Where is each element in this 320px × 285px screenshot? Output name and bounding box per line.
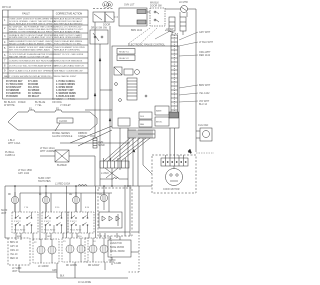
svg-text:REPLACE BOARD IF BAD: REPLACE BOARD IF BAD — [54, 31, 81, 34]
svg-text:REPLACE IF OVER SPEC: REPLACE IF OVER SPEC — [54, 49, 81, 52]
svg-text:SEE FAULT CODES BELOW: SEE FAULT CODES BELOW — [54, 70, 83, 73]
svg-text:L1 BLK: L1 BLK — [101, 172, 109, 175]
svg-text:F4 SHORTED: F4 SHORTED — [6, 92, 21, 95]
svg-text:3. OPEN DOOR: 3. OPEN DOOR — [56, 87, 73, 89]
svg-text:ORG 10: ORG 10 — [10, 250, 19, 252]
svg-text:BROIL 3600W: BROIL 3600W — [110, 251, 126, 253]
svg-text:RF 1200W: RF 1200W — [66, 265, 78, 267]
svg-text:LT BLU WHT: LT BLU WHT — [199, 41, 214, 44]
svg-text:FD RELAY: FD RELAY — [28, 95, 40, 98]
svg-text:LF SURF: LF SURF — [12, 268, 22, 270]
svg-text:RR 1200W: RR 1200W — [88, 265, 100, 267]
svg-text:F2 OVEN HOT: F2 OVEN HOT — [6, 87, 22, 89]
svg-text:T TAN: T TAN — [68, 98, 75, 101]
svg-text:LR: LR — [99, 194, 102, 196]
svg-text:DLB: DLB — [140, 116, 145, 118]
svg-text:CONV MOTOR: CONV MOTOR — [163, 188, 180, 191]
svg-text:GLASS CONSOLE: GLASS CONSOLE — [52, 135, 73, 138]
svg-text:DR LK SW: DR LK SW — [91, 28, 103, 30]
svg-text:W WHITE: W WHITE — [4, 104, 15, 107]
svg-text:BUZZER: BUZZER — [57, 164, 67, 167]
svg-text:CLOCK: CLOCK — [59, 120, 68, 123]
svg-text:FC CANCEL: FC CANCEL — [28, 92, 42, 95]
svg-text:CONVECTION FAN DOES NOT RUN IN: CONVECTION FAN DOES NOT RUN IN BAKE — [9, 60, 56, 63]
svg-text:LK MTR: LK MTR — [179, 1, 188, 4]
svg-text:BAKE: BAKE — [156, 110, 162, 113]
svg-text:ORG: ORG — [77, 236, 82, 238]
svg-text:WHT 14GA: WHT 14GA — [8, 142, 21, 145]
svg-text:FOR CONTINUITY TO ERC: FOR CONTINUITY TO ERC — [54, 43, 82, 45]
svg-text:GRY 1442: GRY 1442 — [18, 172, 30, 175]
svg-text:RELAY K2: RELAY K2 — [119, 57, 130, 60]
svg-text:L1 RED 10GA: L1 RED 10GA — [55, 183, 71, 186]
svg-text:UNIT: UNIT — [12, 271, 18, 273]
svg-text:A GRD: A GRD — [114, 262, 121, 265]
svg-text:FAULT: FAULT — [22, 13, 30, 16]
svg-text:YEL 10: YEL 10 — [10, 254, 18, 256]
svg-text:UNIT: UNIT — [1, 213, 7, 215]
svg-text:BULB. REPLACE IF EITHER ONE IS: BULB. REPLACE IF EITHER ONE IS OPEN — [9, 23, 53, 26]
svg-text:GRY 10: GRY 10 — [10, 246, 19, 248]
svg-text:LF 1200W: LF 1200W — [38, 266, 49, 268]
svg-text:GRY WHT: GRY WHT — [199, 31, 211, 34]
svg-text:YEL 1442: YEL 1442 — [199, 92, 210, 95]
svg-text:GRD: GRD — [52, 270, 57, 272]
svg-text:R RED: R RED — [18, 101, 26, 104]
svg-text:RELAY CONTACTS AND ELEMENT OHM: RELAY CONTACTS AND ELEMENT OHMS — [9, 42, 52, 45]
svg-text:SELF CLEAN CYCLE DOES NOT OPER: SELF CLEAN CYCLE DOES NOT OPERATE — [9, 70, 54, 73]
svg-text:BLK: BLK — [60, 276, 65, 278]
svg-text:DOOR LOCK WILL NOT RELEASE AFT: DOOR LOCK WILL NOT RELEASE AFTER USE — [9, 65, 57, 68]
svg-text:SET. TEST ELEMENT AND WIRE LEA: SET. TEST ELEMENT AND WIRE LEADS — [9, 49, 50, 52]
svg-text:CABLE: CABLE — [78, 135, 86, 138]
svg-text:1. PUSH CANCEL: 1. PUSH CANCEL — [56, 80, 76, 83]
svg-text:F7 LOCK: F7 LOCK — [28, 81, 38, 83]
svg-text:CHECK MOTOR WINDINGS: CHECK MOTOR WINDINGS — [54, 61, 83, 63]
svg-text:FAILURE. RESET CLOCK TIME OF D: FAILURE. RESET CLOCK TIME OF DAY — [9, 55, 50, 58]
svg-text:ELECTRONIC RANGE CONTROL: ELECTRONIC RANGE CONTROL — [128, 44, 166, 47]
svg-text:Y YEL: Y YEL — [35, 104, 42, 107]
svg-text:BRN 10: BRN 10 — [10, 242, 19, 244]
svg-text:RED 10: RED 10 — [10, 258, 19, 260]
svg-text:REPLACE OPEN ELEMENT: REPLACE OPEN ELEMENT — [54, 36, 83, 39]
svg-text:10 GA WIRE: 10 GA WIRE — [78, 281, 91, 284]
svg-text:BRN 1442: BRN 1442 — [131, 29, 143, 32]
svg-text:V VIOLET: V VIOLET — [60, 104, 71, 107]
svg-text:BAKE 2605W: BAKE 2605W — [110, 246, 125, 249]
svg-text:4. RETEST UNIT: 4. RETEST UNIT — [56, 89, 74, 92]
svg-text:FAN: FAN — [140, 123, 145, 126]
svg-text:CLMB 12: CLMB 12 — [5, 154, 16, 157]
svg-text:CHECK LATCH AND SWITCH: CHECK LATCH AND SWITCH — [54, 65, 84, 68]
svg-text:SURF: SURF — [1, 210, 8, 212]
svg-text:DOOR SW: DOOR SW — [150, 5, 162, 8]
svg-text:CLG FAN: CLG FAN — [198, 124, 209, 127]
svg-text:LK SW: LK SW — [166, 28, 174, 31]
svg-text:SNSR: SNSR — [98, 144, 105, 147]
svg-text:FAULT CODES SHOWN IN DISPLAY W: FAULT CODES SHOWN IN DISPLAY WINDOW - PR… — [4, 75, 77, 78]
svg-text:AND REPLACE AS NEEDED: AND REPLACE AS NEEDED — [54, 23, 83, 26]
svg-text:RELAY K1: RELAY K1 — [119, 51, 130, 54]
svg-text:SWITCHES: SWITCHES — [38, 180, 51, 183]
svg-text:RESET CLOCK - SEE GUIDE: RESET CLOCK - SEE GUIDE — [54, 54, 84, 56]
svg-text:BRN WHT: BRN WHT — [199, 84, 211, 87]
svg-text:OVEN TOD: OVEN TOD — [110, 243, 122, 245]
svg-text:ROTATE SWITCH TO ON AND TEST V: ROTATE SWITCH TO ON AND TEST VOLTS — [9, 36, 54, 39]
svg-text:WP 8-16: WP 8-16 — [2, 7, 12, 9]
svg-text:F1 TOUCH PAD: F1 TOUCH PAD — [6, 83, 23, 86]
svg-text:FA SPEED: FA SPEED — [28, 89, 40, 92]
svg-text:BLU 14: BLU 14 — [199, 103, 208, 106]
svg-text:F3 SENSOR: F3 SENSOR — [6, 90, 19, 92]
svg-text:OVN LGT: OVN LGT — [124, 4, 135, 7]
svg-text:F8 DOOR: F8 DOOR — [28, 84, 39, 86]
svg-text:2. CHECK WIRES: 2. CHECK WIRES — [56, 84, 75, 86]
svg-text:F9 LATCH: F9 LATCH — [28, 86, 39, 89]
svg-text:5. SENSOR OHMS: 5. SENSOR OHMS — [56, 93, 76, 95]
svg-text:WIRING TO THE TERMINAL BLOCK F: WIRING TO THE TERMINAL BLOCK FIRST — [9, 31, 53, 34]
svg-text:F0 STUCK KEY: F0 STUCK KEY — [6, 81, 23, 83]
svg-text:F5 BOARD: F5 BOARD — [6, 95, 18, 98]
svg-text:RR: RR — [69, 194, 73, 196]
svg-text:RED 1442: RED 1442 — [199, 54, 211, 57]
svg-text:WHT JUMPER: WHT JUMPER — [40, 150, 56, 153]
svg-text:BROIL: BROIL — [156, 122, 163, 124]
svg-text:CORRECTIVE ACTION: CORRECTIVE ACTION — [56, 13, 83, 16]
